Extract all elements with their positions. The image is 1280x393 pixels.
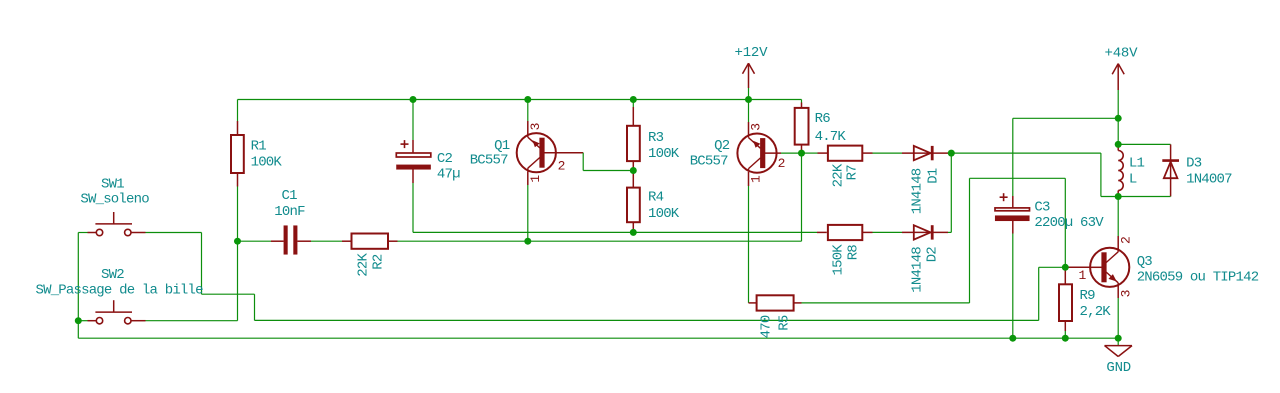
svg-text:L1: L1 [1129,155,1145,171]
svg-text:2: 2 [1119,237,1134,244]
svg-text:C1: C1 [282,188,298,204]
svg-text:470: 470 [759,315,775,338]
svg-text:D3: D3 [1186,155,1202,171]
svg-text:R3: R3 [648,130,664,146]
svg-text:R8: R8 [846,245,862,261]
svg-text:L: L [1129,172,1137,188]
svg-text:22K: 22K [355,253,371,277]
svg-text:1: 1 [528,175,543,183]
svg-text:BC557: BC557 [470,153,508,169]
svg-text:10nF: 10nF [274,204,305,220]
svg-text:C2: C2 [437,151,453,167]
svg-text:2: 2 [778,156,785,171]
svg-text:R2: R2 [370,254,386,270]
svg-text:SW_soleno: SW_soleno [80,192,149,208]
svg-text:R1: R1 [251,138,267,154]
svg-text:Q2: Q2 [714,138,730,154]
svg-text:R9: R9 [1080,288,1096,304]
svg-text:D1: D1 [925,168,941,184]
svg-text:SW1: SW1 [101,176,124,192]
svg-text:100K: 100K [648,146,680,162]
svg-text:D2: D2 [925,247,941,263]
svg-text:SW_Passage de la bille: SW_Passage de la bille [36,282,204,298]
svg-text:1N4148: 1N4148 [910,247,926,293]
svg-text:+48V: +48V [1105,46,1139,62]
svg-text:4.7K: 4.7K [815,129,847,145]
svg-text:GND: GND [1106,360,1131,376]
svg-text:150K: 150K [830,244,846,276]
svg-text:R7: R7 [844,165,860,181]
svg-text:C3: C3 [1034,200,1050,216]
svg-text:R6: R6 [815,111,831,127]
svg-text:3: 3 [1119,290,1134,297]
svg-text:47µ: 47µ [437,167,460,183]
svg-text:R4: R4 [648,190,664,206]
svg-text:3: 3 [528,123,543,130]
svg-text:1: 1 [748,175,763,183]
svg-text:Q1: Q1 [494,138,510,154]
svg-text:1: 1 [1079,268,1087,283]
svg-text:2N6059 ou TIP142: 2N6059 ou TIP142 [1137,270,1259,286]
svg-text:100K: 100K [648,206,680,222]
svg-text:2200µ 63V: 2200µ 63V [1034,215,1104,231]
svg-text:1N4148: 1N4148 [910,168,926,214]
svg-text:SW2: SW2 [101,267,124,283]
svg-text:100K: 100K [251,155,283,171]
svg-text:+12V: +12V [735,45,769,61]
svg-text:Q3: Q3 [1137,254,1153,270]
svg-text:R5: R5 [776,315,792,331]
svg-text:3: 3 [748,124,763,131]
svg-text:BC557: BC557 [690,154,728,170]
svg-text:2: 2 [558,158,565,173]
svg-text:1N4007: 1N4007 [1186,172,1232,188]
svg-text:2,2K: 2,2K [1080,304,1112,320]
